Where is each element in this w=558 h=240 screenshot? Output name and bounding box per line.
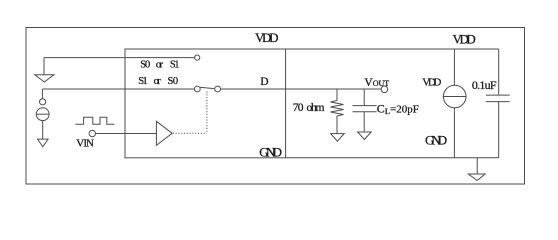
svg-text:GND: GND: [425, 132, 447, 147]
svg-text:0.1uF: 0.1uF: [472, 78, 497, 92]
svg-text:VDD: VDD: [453, 32, 476, 47]
svg-text:S1orS0: S1orS0: [138, 76, 178, 87]
svg-text:CL=20pF: CL=20pF: [377, 102, 419, 117]
svg-text:GND: GND: [259, 145, 282, 160]
svg-text:VDD: VDD: [422, 77, 441, 89]
svg-text:70ohm: 70ohm: [293, 102, 325, 114]
svg-text:S0orS1: S0orS1: [140, 59, 179, 70]
svg-text:VIN: VIN: [76, 137, 94, 149]
svg-text:VDD: VDD: [255, 30, 279, 45]
svg-text:VOUT: VOUT: [364, 77, 389, 89]
svg-text:D: D: [260, 76, 268, 88]
